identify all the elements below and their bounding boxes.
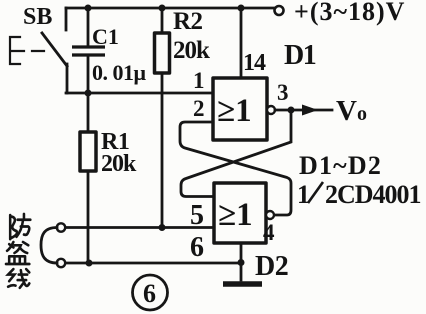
svg-text:C1: C1 — [92, 24, 119, 49]
svg-text:14: 14 — [243, 50, 266, 76]
label fang (Chinese) — [10, 214, 30, 239]
svg-text:D2: D2 — [255, 251, 288, 282]
svg-text:D1~D2: D1~D2 — [299, 151, 382, 180]
gate D2 output bubble pin4 — [266, 211, 274, 219]
wire sensor loop arc — [41, 228, 57, 264]
svg-text:20k: 20k — [173, 37, 210, 64]
svg-text:+(3~18)V: +(3~18)V — [294, 0, 405, 26]
svg-text:1: 1 — [193, 68, 205, 93]
wire pin3 cross-couple to D2 input — [181, 110, 291, 197]
wire pin14 stub — [240, 8, 243, 78]
label dao (Chinese) — [6, 242, 29, 264]
svg-text:6: 6 — [190, 232, 204, 263]
svg-text:4: 4 — [263, 220, 275, 245]
svg-text:3: 3 — [277, 80, 289, 105]
switch SB top contact — [65, 8, 68, 30]
power terminal circle — [275, 6, 284, 15]
arrow on Vo wire — [302, 105, 318, 116]
wire pin2 cross-couple to D2 output — [180, 122, 291, 215]
capacitor C1 plates — [72, 47, 105, 55]
junction dot top rail C1 — [85, 5, 92, 12]
svg-text:D1: D1 — [284, 40, 316, 71]
svg-text:20k: 20k — [101, 151, 137, 177]
capacitor C1 bottom lead — [87, 56, 90, 93]
junction dot rail2 C1-R1 — [85, 90, 92, 97]
resistor R2 bottom lead — [161, 73, 164, 228]
wire rail2 (pin1 node) — [66, 92, 213, 95]
svg-text:≥1: ≥1 — [218, 197, 253, 233]
resistor R1 top lead — [87, 93, 90, 132]
wire pin6 ground row — [65, 262, 241, 265]
ground — [223, 281, 262, 287]
switch SB lever — [42, 33, 67, 66]
junction dot pin6 row R1 — [86, 260, 93, 267]
resistor R1 body — [80, 132, 96, 171]
switch SB actuator bracket — [10, 37, 20, 64]
gate U2 D2 box — [214, 183, 266, 243]
label xian (Chinese) — [8, 269, 29, 288]
wire D2 bottom stub to ground — [240, 243, 243, 280]
switch SB actuator dashed link — [12, 50, 50, 52]
svg-text:≥1: ≥1 — [217, 93, 252, 129]
svg-text:6: 6 — [143, 279, 156, 308]
resistor R1 bottom lead — [87, 171, 90, 263]
resistor R2 top lead — [161, 8, 164, 33]
svg-text:SB: SB — [23, 4, 52, 30]
svg-text:0. 01μ: 0. 01μ — [92, 60, 147, 85]
junction dot pin6 row D2 stub — [238, 259, 245, 266]
junction dot top rail pin14 — [238, 5, 245, 12]
junction dot output node — [288, 107, 295, 114]
terminal loop lower — [57, 259, 65, 267]
switch SB bottom lead — [66, 64, 69, 93]
svg-text:2CD4001: 2CD4001 — [325, 180, 421, 209]
wire output Vo — [275, 109, 332, 112]
resistor R2 body — [155, 33, 170, 73]
svg-text:1: 1 — [297, 180, 310, 209]
gate D1 output bubble pin3 — [267, 106, 275, 114]
svg-text:Vo: Vo — [336, 95, 367, 127]
wire top power rail — [66, 7, 276, 10]
gate U1 D1 box — [213, 78, 267, 140]
svg-text:R2: R2 — [173, 8, 203, 35]
svg-text:2: 2 — [193, 96, 205, 121]
terminal loop upper — [57, 223, 65, 231]
junction dot pin5 row R2 — [159, 224, 166, 231]
capacitor C1 top lead — [87, 8, 90, 46]
wire pin5 row — [65, 226, 214, 229]
junction dot top rail R2 — [159, 5, 166, 12]
figure number 6 circle — [133, 275, 168, 310]
